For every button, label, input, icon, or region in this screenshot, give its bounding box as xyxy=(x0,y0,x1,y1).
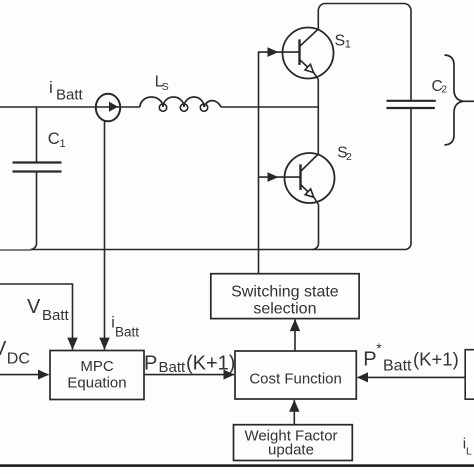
wire PBatt MPC to Cost xyxy=(144,374,234,376)
svg-text:Equation: Equation xyxy=(67,374,126,391)
wire main top xyxy=(0,106,96,108)
wire S2 emitter to rail xyxy=(313,205,319,250)
arrow PBatt into Cost xyxy=(224,370,235,380)
wire Weight to Cost xyxy=(293,400,295,425)
svg-text:DC: DC xyxy=(7,350,30,367)
block switching state selection xyxy=(50,274,359,461)
svg-text:MPC: MPC xyxy=(80,358,114,375)
wire top rail xyxy=(318,4,411,101)
arrow Weight into Cost xyxy=(289,400,299,412)
svg-text:P: P xyxy=(144,353,157,375)
svg-text:Switching state: Switching state xyxy=(231,284,339,301)
svg-text:(K+1): (K+1) xyxy=(186,353,235,375)
wire Cost to Switching xyxy=(294,320,296,351)
inductor Ls xyxy=(140,97,221,107)
transistor S1 emitter xyxy=(300,60,319,80)
svg-text:1: 1 xyxy=(60,138,66,150)
svg-text:2: 2 xyxy=(346,151,352,163)
svg-text:(K+1): (K+1) xyxy=(413,349,459,370)
svg-text:2: 2 xyxy=(441,83,447,95)
wire bottom rail xyxy=(31,249,405,251)
capacitor C2 xyxy=(387,100,436,102)
transistor S2 base bar xyxy=(299,164,301,190)
svg-text:selection: selection xyxy=(253,301,316,318)
wire C1 branch top xyxy=(36,107,38,162)
svg-text:S: S xyxy=(335,32,346,49)
wire VBatt xyxy=(0,284,73,350)
arrow into Switching xyxy=(290,319,300,331)
current sensor circle xyxy=(96,94,120,122)
svg-text:Cost Function: Cost Function xyxy=(249,370,342,387)
wire ref into Cost xyxy=(358,376,466,378)
svg-text:Batt: Batt xyxy=(115,324,139,339)
transistor Q S2 circle xyxy=(285,153,335,203)
wire gate drive vertical xyxy=(259,52,300,274)
arrow VBatt into MPC xyxy=(67,338,77,350)
svg-text:*: * xyxy=(376,340,382,356)
svg-text:C: C xyxy=(48,130,60,148)
svg-text:V: V xyxy=(27,296,41,318)
current sensor arrowhead xyxy=(109,102,118,112)
brace tick xyxy=(464,100,474,102)
arrow VDC into MPC xyxy=(38,370,49,380)
wire VDC xyxy=(0,374,49,376)
svg-text:1: 1 xyxy=(345,39,351,51)
border bottom xyxy=(0,464,474,467)
arrow S2 base xyxy=(268,172,279,182)
wire switch node vertical xyxy=(317,80,319,155)
wire rail left stub xyxy=(0,249,31,251)
transistor S2 emitter xyxy=(301,185,319,205)
transistor S1 base bar xyxy=(298,39,300,65)
arrow S1 base xyxy=(268,47,279,57)
svg-text:update: update xyxy=(268,441,314,458)
svg-text:L: L xyxy=(466,446,472,458)
svg-text:P: P xyxy=(363,349,376,371)
block weight factor update xyxy=(234,425,353,461)
wire inductor to switch node xyxy=(221,106,318,108)
transistor Q S1 circle xyxy=(283,28,334,79)
brace C2 xyxy=(445,55,464,145)
svg-text:S: S xyxy=(162,81,169,93)
wire rail to C2 xyxy=(405,108,411,250)
svg-text:i: i xyxy=(49,78,53,97)
transistor S2 emitter arrowhead xyxy=(305,189,314,197)
block MPC equation xyxy=(50,351,144,400)
transistor S1 emitter arrowhead xyxy=(305,64,314,72)
svg-text:Batt: Batt xyxy=(42,307,70,324)
wire S2 base branch xyxy=(259,176,301,178)
wire iBatt sense line xyxy=(104,121,106,349)
capacitor C1 xyxy=(13,161,62,163)
wire C1 branch bottom xyxy=(31,173,37,250)
transistor S1 collector xyxy=(300,29,319,47)
wire sensor to inductor xyxy=(121,106,141,108)
svg-text:Batt: Batt xyxy=(56,87,84,104)
block cost function xyxy=(235,351,356,399)
svg-text:Batt: Batt xyxy=(159,359,187,376)
svg-text:Batt: Batt xyxy=(383,357,412,374)
arrow iBatt into MPC xyxy=(99,338,109,350)
block partial right xyxy=(465,350,474,400)
transistor S2 collector xyxy=(301,154,319,172)
arrow ref into Cost xyxy=(357,372,368,382)
